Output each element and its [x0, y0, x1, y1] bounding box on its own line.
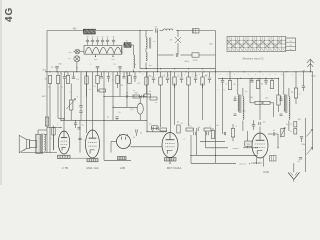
label AB	[43, 69, 47, 72]
svg-text:(47): (47)	[209, 44, 213, 46]
svg-text:40k: 40k	[250, 97, 253, 99]
resistor R7	[85, 72, 88, 97]
capacitor C24	[252, 120, 255, 130]
wire speaker bottom	[21, 150, 57, 152]
svg-text:4x: 4x	[126, 40, 128, 42]
valve V1 base	[58, 155, 71, 158]
wire x273 mid	[273, 103, 275, 117]
wire vert x140	[139, 31, 141, 69]
svg-text:mains: mains	[311, 76, 316, 78]
label under table	[242, 57, 264, 60]
svg-text:2M: 2M	[195, 75, 198, 77]
wire V5 right lead	[277, 134, 278, 148]
inductor L2 osc primary	[146, 31, 151, 49]
capacitor C34 above rail	[96, 66, 99, 72]
resistor R19	[270, 81, 273, 89]
resistor R16	[211, 128, 214, 139]
capacitor C25	[259, 122, 266, 126]
wire V2 top lead	[92, 72, 94, 130]
dial tap 1	[94, 54, 97, 61]
svg-text:x: x	[275, 74, 276, 76]
svg-text:av: av	[290, 40, 292, 42]
node dots misc	[60, 78, 260, 164]
capacitor C27	[302, 86, 305, 91]
resistor R12	[150, 97, 157, 100]
wire rail y69	[140, 68, 216, 70]
transformer T1 secondary	[44, 135, 45, 152]
labels scatter D	[216, 76, 316, 129]
svg-text:gv: gv	[290, 45, 292, 47]
capacitor C21	[221, 81, 224, 87]
terminal tag TB1	[270, 156, 277, 162]
capacitor C15	[115, 117, 118, 120]
svg-text:4n: 4n	[216, 125, 218, 127]
svg-text:x: x	[185, 74, 186, 76]
resistor R1 mains dropper (hatched)	[84, 29, 97, 34]
resistor R17	[228, 72, 231, 90]
svg-text:2xx: 2xx	[112, 59, 115, 61]
wire ballast link	[123, 45, 134, 55]
inductor L1 inline choke	[163, 29, 173, 31]
IFT2 trimmers	[280, 96, 283, 115]
labels scatter E	[58, 64, 152, 70]
svg-text:3n: 3n	[101, 36, 103, 38]
labels scatter B	[223, 90, 301, 100]
wire base link	[64, 157, 87, 159]
inductor L4 IFT1 primary	[238, 78, 241, 113]
wire lamp links	[74, 52, 85, 72]
capacitor C9	[63, 72, 67, 80]
svg-text:x: x	[248, 74, 249, 76]
wire y148 link	[206, 147, 259, 150]
wire x196 v	[196, 131, 198, 155]
svg-text:50k: 50k	[162, 76, 165, 78]
wire x160 down	[160, 88, 162, 127]
wire V2 grid lead	[86, 72, 88, 133]
lamp P1 dial (circle X)	[75, 49, 80, 54]
resistor R18	[256, 81, 259, 89]
capacitor C22	[250, 81, 253, 83]
svg-text:x: x	[282, 74, 283, 76]
svg-text:2xx: 2xx	[94, 59, 97, 61]
svg-text:x: x	[292, 74, 293, 76]
table right legend	[286, 38, 296, 51]
wire y107	[113, 106, 137, 108]
wire y96 link	[104, 96, 147, 98]
svg-text:x: x	[120, 90, 121, 92]
antenna A1	[302, 59, 314, 72]
resistor R6	[66, 72, 69, 84]
svg-text:2 7B: 2 7B	[62, 166, 68, 170]
svg-text:230v: 230v	[301, 144, 305, 146]
capacitor C14	[142, 95, 144, 98]
wire x120	[119, 72, 121, 97]
capacitor C38	[223, 86, 226, 135]
capacitor C41	[300, 137, 303, 143]
wire V4 top lead	[170, 72, 172, 133]
label top rail	[73, 29, 78, 31]
svg-text:x: x	[70, 92, 71, 94]
speaker LS1	[19, 135, 37, 152]
svg-text:2x: 2x	[286, 124, 288, 126]
resistor R30	[96, 72, 99, 92]
capacitor C28	[297, 158, 302, 164]
resistor R9	[160, 128, 167, 132]
svg-text:3n: 3n	[112, 36, 114, 38]
svg-text:2k: 2k	[149, 91, 151, 93]
wire vert x215	[215, 31, 217, 72]
potentiometer VR1 with arrow	[67, 84, 79, 121]
wire x247 v	[247, 131, 249, 148]
inductor L6 IFT2 primary	[284, 72, 287, 113]
label V5 FW4	[251, 162, 262, 165]
resistor R21	[263, 101, 274, 104]
resistor R38	[290, 129, 297, 135]
svg-text:x: x	[100, 74, 101, 76]
svg-text:1M: 1M	[120, 85, 123, 87]
svg-text:(460): (460)	[184, 61, 189, 63]
label 230V	[301, 144, 305, 152]
resistor R32	[128, 72, 131, 84]
wire x58 down	[58, 84, 64, 119]
svg-text:x: x	[61, 74, 62, 76]
labels comb	[148, 76, 207, 78]
svg-text:output: output	[232, 147, 238, 150]
wire x305 v2	[305, 118, 307, 172]
svg-text:Waveband switch S1: Waveband switch S1	[242, 57, 264, 60]
resistor R36	[231, 124, 234, 141]
wire x113	[112, 72, 114, 121]
resistor R39 ballast (hatched)	[124, 40, 131, 47]
svg-text:2n: 2n	[118, 112, 120, 114]
resistor R37	[290, 122, 297, 128]
valve V2 MH4 pentode	[86, 130, 100, 158]
svg-text:25k: 25k	[265, 98, 268, 100]
svg-text:2k: 2k	[233, 84, 235, 86]
resistor R24	[294, 72, 297, 104]
node rail junctions	[49, 71, 310, 72]
svg-text:chassis: chassis	[239, 164, 247, 166]
label lamps	[69, 52, 73, 60]
svg-text:4G: 4G	[4, 7, 15, 22]
mains tap arrow 1	[307, 129, 313, 136]
svg-text:4700: 4700	[193, 60, 199, 62]
svg-text:AVC: AVC	[42, 95, 47, 98]
capacitor C11	[79, 72, 82, 107]
label V3	[120, 166, 125, 170]
svg-text:xx: xx	[290, 131, 292, 133]
valve V4 base	[165, 158, 177, 161]
wire x191 v	[190, 135, 192, 163]
label (4x)	[209, 44, 213, 46]
capacitor C26	[268, 130, 278, 136]
inductor L8 heater choke	[134, 55, 135, 72]
wire y155 rail	[190, 154, 258, 156]
svg-text:25k: 25k	[134, 93, 137, 95]
wire y160 bottom	[104, 159, 131, 161]
labels right rail	[225, 84, 264, 87]
svg-text:3n: 3n	[86, 36, 88, 38]
resistor R3	[192, 53, 199, 62]
capacitor C35 above rail	[118, 66, 121, 72]
label 460 mid	[184, 61, 189, 63]
capacitor C30	[100, 72, 103, 78]
wire y127 link	[47, 127, 62, 128]
svg-text:x: x	[269, 74, 270, 76]
svg-text:x: x	[131, 77, 132, 79]
capacitor C18	[197, 128, 198, 131]
svg-text:xx: xx	[61, 87, 63, 89]
wire x127 v	[126, 72, 128, 108]
capacitor C1 inline	[154, 27, 158, 33]
wire transformer top	[38, 130, 47, 135]
wire top HT rail	[47, 30, 216, 32]
svg-text:xx: xx	[290, 124, 292, 126]
wire y55 link	[158, 54, 216, 56]
svg-text:osc: osc	[149, 65, 152, 67]
capacitor C39	[78, 138, 86, 142]
svg-text:xx: xx	[48, 87, 50, 89]
capacitor C31	[107, 72, 110, 82]
wire IFT2 top lead	[288, 88, 290, 97]
wire vert x157	[157, 31, 159, 72]
wire x188 down	[188, 88, 190, 126]
label V5 U4	[263, 170, 269, 174]
svg-text:3n: 3n	[96, 36, 98, 38]
wire x104 long	[103, 72, 105, 161]
wire IFT1 top lead	[242, 88, 244, 97]
capacitor C8	[51, 66, 59, 72]
wire V1 top lead	[63, 118, 65, 131]
svg-text:hh: hh	[247, 144, 249, 146]
lamp P2 dial (circle X)	[74, 56, 80, 62]
svg-text:x: x	[220, 74, 221, 76]
svg-text:x: x	[126, 74, 127, 76]
wire x64 down	[64, 80, 66, 120]
capacitor C10	[72, 72, 80, 81]
svg-text:xx: xx	[133, 90, 135, 92]
wire main HT rail y72	[45, 71, 313, 73]
resistor R22	[277, 78, 280, 112]
labels scatter A	[149, 75, 209, 104]
svg-text:4u: 4u	[134, 64, 136, 66]
svg-text:1k: 1k	[177, 76, 179, 78]
wire x61	[60, 72, 62, 121]
component comb R/C row	[145, 72, 211, 88]
capacitor C16	[152, 127, 153, 132]
wire y131 link	[147, 131, 167, 133]
mains tap arrow 2	[307, 147, 313, 154]
wire drops right rail	[223, 78, 273, 80]
IFT1 trimmers	[234, 96, 237, 115]
resistor R33	[98, 89, 106, 92]
svg-text:kv: kv	[290, 49, 292, 51]
svg-text:x: x	[192, 74, 193, 76]
resistor R13	[177, 123, 184, 133]
capacitor trimmer row C3-C7	[86, 36, 115, 45]
valve V2 base	[87, 158, 98, 161]
svg-text:2k: 2k	[43, 134, 45, 136]
wire x202 down	[202, 83, 204, 120]
resistor R15	[204, 128, 211, 131]
capacitor C19	[192, 129, 195, 135]
resistor R10	[152, 126, 159, 129]
dial tap 2	[112, 54, 115, 61]
resistor R35	[52, 128, 55, 151]
svg-text:x: x	[111, 74, 112, 76]
valve V5 side tag	[245, 141, 252, 146]
svg-text:A.B.: A.B.	[43, 69, 47, 72]
resistor R20	[250, 78, 262, 104]
resistor R11	[144, 88, 151, 97]
transformer T1 core	[41, 134, 42, 154]
svg-text:x: x	[263, 74, 264, 76]
wire x147	[146, 72, 148, 132]
svg-text:8k: 8k	[177, 122, 179, 124]
wire x50 down	[49, 84, 51, 153]
neon stabiliser N1	[130, 97, 143, 121]
svg-text:xx: xx	[69, 58, 71, 60]
svg-text:Lg: Lg	[291, 92, 293, 94]
svg-text:x: x	[52, 74, 53, 76]
label V4	[167, 166, 182, 170]
capacitor C2	[176, 53, 178, 57]
svg-text:x: x	[218, 89, 219, 91]
wire rail y78	[218, 77, 278, 79]
svg-text:L6B: L6B	[120, 166, 125, 170]
resistor R4	[44, 76, 51, 84]
valve V1 27B triode	[58, 131, 69, 154]
resistor R14	[186, 126, 194, 131]
valve V4 output pentode	[162, 133, 178, 158]
wire x215 long	[215, 72, 217, 164]
inductor L3 osc secondary	[146, 49, 147, 69]
wire left bus vertical	[46, 31, 48, 153]
svg-text:x: x	[234, 74, 235, 76]
label V2	[86, 166, 98, 170]
svg-text:x: x	[213, 74, 214, 76]
wire x205 v	[205, 131, 207, 148]
capacitor C36	[74, 120, 77, 128]
labels scatter H	[52, 74, 301, 80]
label osc coil	[153, 41, 156, 43]
svg-text:xx: xx	[155, 102, 157, 104]
svg-text:x: x	[143, 74, 144, 76]
svg-text:MKT DH4A: MKT DH4A	[167, 166, 182, 170]
capacitor C32	[122, 72, 125, 78]
resistor R31	[116, 72, 119, 88]
wire V3 leads	[111, 142, 162, 153]
svg-text:U4D: U4D	[263, 170, 269, 174]
label V1 27B	[62, 166, 68, 170]
svg-text:x: x	[152, 76, 153, 78]
labels scatter F	[42, 95, 185, 143]
valve V3 base	[118, 157, 127, 160]
dial drive box with cord	[84, 45, 122, 54]
ground chassis symbol	[288, 172, 300, 182]
valve V5 rectifier	[252, 133, 268, 158]
capacitor C17	[157, 127, 158, 130]
svg-text:x: x	[171, 74, 172, 76]
resistor R34 inline	[45, 117, 48, 126]
svg-text:MH4 1AA: MH4 1AA	[86, 166, 98, 170]
capacitor C12	[79, 107, 82, 120]
wire x303 v	[303, 72, 305, 86]
labels comb2	[93, 73, 140, 89]
labels scatter G	[48, 76, 218, 94]
inductor L5 IFT1 secondary	[243, 97, 244, 132]
capacitor C13	[126, 93, 129, 99]
labels scatter C	[107, 112, 212, 129]
capacitor C37	[77, 125, 84, 129]
svg-text:50k: 50k	[58, 64, 61, 66]
svg-text:xx: xx	[89, 89, 91, 91]
svg-text:(47): (47)	[130, 109, 134, 111]
capacitor C20	[207, 132, 209, 135]
page label 4G	[4, 7, 15, 22]
svg-text:x: x	[300, 74, 301, 76]
resistor R8	[133, 93, 140, 98]
resistor R23 with arrow	[280, 128, 285, 138]
wire y120 link	[61, 119, 147, 121]
wire x80 down	[79, 120, 81, 152]
node top rail junction	[139, 30, 178, 31]
resistor R5	[56, 72, 59, 84]
svg-text:x: x	[255, 74, 256, 76]
wire x174 down	[174, 83, 176, 125]
wire V5 top lead	[259, 78, 261, 133]
wire y163 rail	[191, 163, 250, 165]
wire V5 bottom leads	[256, 157, 264, 166]
svg-text:1M: 1M	[44, 79, 47, 81]
capacitor C33	[133, 72, 136, 82]
svg-text:x: x	[178, 74, 179, 76]
svg-text:x: x	[164, 74, 165, 76]
wire x53 v	[50, 126, 53, 151]
node dots rails2	[146, 68, 279, 79]
wire x312 v	[311, 72, 313, 150]
svg-text:x: x	[199, 74, 200, 76]
diode MR1	[170, 31, 181, 56]
svg-text:x: x	[157, 74, 158, 76]
svg-text:x: x	[84, 74, 85, 76]
capacitor C42	[136, 129, 143, 136]
valve V3 double diode	[117, 134, 131, 149]
svg-text:x: x	[227, 74, 228, 76]
wire V4 bottom	[169, 158, 171, 164]
svg-text:3n: 3n	[106, 36, 108, 38]
table valve socket connections	[227, 37, 286, 52]
capacitor C23	[264, 81, 267, 86]
wire y141 link	[200, 140, 225, 142]
svg-text:x: x	[71, 74, 72, 76]
svg-text:4n: 4n	[273, 130, 275, 132]
resistor R2 inline	[193, 29, 200, 33]
svg-text:3n: 3n	[91, 36, 93, 38]
transformer T1 primary	[36, 134, 41, 153]
wire ground lead	[293, 163, 295, 172]
inductor L7 IFT2 secondary	[289, 97, 290, 132]
